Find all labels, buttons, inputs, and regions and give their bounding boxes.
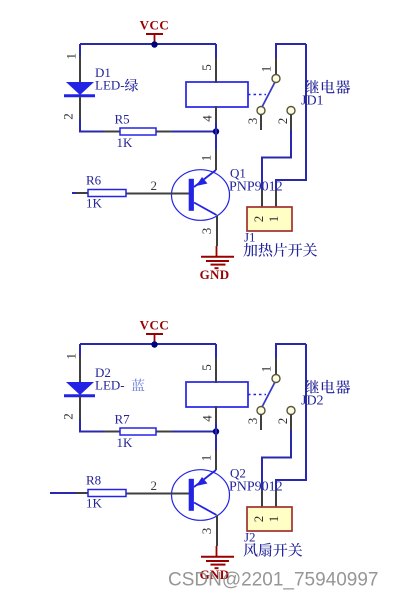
pin 3 stub xyxy=(260,415,262,431)
svg-text:5: 5 xyxy=(199,64,214,71)
svg-text:LED-: LED- xyxy=(95,378,125,393)
svg-text:4: 4 xyxy=(200,415,215,422)
svg-text:2: 2 xyxy=(151,178,158,193)
wire: top rail from LED branch to relay branch xyxy=(80,43,216,45)
LED D1 (绿) xyxy=(61,53,95,120)
svg-text:J1: J1 xyxy=(244,230,256,245)
resistor R5 1K xyxy=(104,112,172,151)
svg-text:2: 2 xyxy=(275,118,290,125)
svg-text:2: 2 xyxy=(251,216,266,223)
wire: node down to Q1 emitter xyxy=(215,123,217,150)
svg-text:GND: GND xyxy=(200,267,230,282)
svg-text:1: 1 xyxy=(259,66,274,73)
label D2 designator xyxy=(95,365,145,393)
relay coil JD1 body xyxy=(186,82,248,107)
transistor Q1 collector pin 3 xyxy=(216,216,218,247)
svg-text:1: 1 xyxy=(259,366,274,373)
connector J1 xyxy=(247,190,292,231)
transistor Q2 emitter pin 1 xyxy=(215,450,217,470)
wire: contact 2 down to J2 pin 2 xyxy=(262,430,291,490)
wire: right drop from rail to relay coil xyxy=(215,344,217,358)
resistor R8 1K xyxy=(76,473,126,511)
ground GND xyxy=(200,246,234,282)
power VCC (section 2) xyxy=(140,318,170,346)
relay JD2 contact 3 xyxy=(257,407,265,415)
relay JD2 contact 2 xyxy=(287,407,295,415)
svg-text:Q2: Q2 xyxy=(230,466,246,481)
wire: right rail down xyxy=(276,344,306,490)
svg-text:VCC: VCC xyxy=(140,18,170,33)
svg-text:1: 1 xyxy=(199,455,214,462)
relay JD1 switch arm xyxy=(262,82,275,107)
transistor Q1 emitter pin 1 xyxy=(215,150,217,170)
junction: node R5/coil/emitter dot xyxy=(213,128,219,134)
dashed link coil to contact arm xyxy=(248,94,266,96)
svg-text:3: 3 xyxy=(245,118,260,125)
wire: left stub to R8 xyxy=(50,492,76,494)
relay coil JD2 pin 4 xyxy=(215,406,217,423)
pin 2 lead xyxy=(290,115,292,131)
svg-text:3: 3 xyxy=(199,528,214,535)
label J1 designator xyxy=(243,230,317,257)
label J2 designator xyxy=(244,530,303,557)
svg-text:JD2: JD2 xyxy=(301,394,324,409)
svg-text:1: 1 xyxy=(199,155,214,162)
label relay 继电器 JD1 xyxy=(301,80,350,109)
svg-text:2: 2 xyxy=(61,113,76,120)
svg-text:2: 2 xyxy=(275,418,290,425)
svg-text:PNP9012: PNP9012 xyxy=(229,180,283,195)
svg-text:Q1: Q1 xyxy=(230,166,246,181)
relay coil JD1 pin 4 xyxy=(215,106,217,123)
relay JD1 contact pin 1 lead xyxy=(275,58,277,75)
transistor Q2 collector pin 3 xyxy=(216,516,218,547)
label Q1 designator xyxy=(229,166,283,195)
relay coil JD2 pin 5 xyxy=(215,358,217,383)
wire: contact 2 down to J1 pin 2 xyxy=(262,130,291,190)
connector J2 xyxy=(247,490,292,531)
wire: left stub to R6 xyxy=(72,192,76,194)
relay JD2 switch arm xyxy=(262,382,275,407)
svg-text:CSDN@2201_75940997: CSDN@2201_75940997 xyxy=(168,570,379,591)
svg-text:3: 3 xyxy=(245,418,260,425)
svg-text:1: 1 xyxy=(64,353,79,360)
dashed link coil to contact arm xyxy=(248,394,266,396)
svg-text:R7: R7 xyxy=(115,412,131,427)
relay JD1 contact 3 xyxy=(257,107,265,115)
svg-text:R6: R6 xyxy=(86,173,102,188)
relay JD2 contact pin 1 lead xyxy=(275,358,277,375)
svg-text:1K: 1K xyxy=(86,196,103,211)
svg-text:5: 5 xyxy=(199,364,214,371)
svg-text:VCC: VCC xyxy=(140,318,170,333)
junction: VCC node dot xyxy=(151,341,157,347)
svg-text:1: 1 xyxy=(266,216,281,223)
junction: node R7/coil/emitter dot xyxy=(213,428,219,434)
relay JD1 contact 2 xyxy=(287,107,295,115)
svg-text:2: 2 xyxy=(61,413,76,420)
transistor Q2 PNP9012 xyxy=(126,470,230,521)
wire: right drop from rail to relay coil xyxy=(215,44,217,58)
svg-text:2: 2 xyxy=(251,516,266,523)
pin 3 stub xyxy=(260,115,262,131)
wire: LED cathode down and right to R7 xyxy=(80,419,216,432)
label D1 designator xyxy=(95,65,138,93)
wire: LED cathode down and right to R5 xyxy=(80,119,216,132)
pin 2 lead xyxy=(290,415,292,431)
LED D2 ( 蓝) xyxy=(61,353,95,420)
svg-text:JD1: JD1 xyxy=(301,94,324,109)
svg-text:PNP9012: PNP9012 xyxy=(229,480,283,495)
wire: contact 1 up and over to right rail xyxy=(276,44,306,58)
resistor R7 1K xyxy=(104,412,172,451)
svg-text:1K: 1K xyxy=(86,496,103,511)
svg-text:J2: J2 xyxy=(244,530,256,545)
wire: top rail from LED branch to relay branch xyxy=(80,343,216,345)
svg-text:1K: 1K xyxy=(117,435,134,450)
svg-text:1K: 1K xyxy=(117,135,134,150)
wire: right rail down xyxy=(276,44,306,190)
relay JD2 contact 1 xyxy=(272,375,280,383)
svg-text:3: 3 xyxy=(199,228,214,235)
svg-text:1: 1 xyxy=(266,516,281,523)
label Q2 designator xyxy=(229,466,283,495)
junction: VCC node dot xyxy=(151,41,157,47)
power VCC (section 1) xyxy=(140,18,170,46)
label relay 继电器 JD2 xyxy=(301,380,350,409)
relay JD1 contact 1 xyxy=(272,75,280,83)
transistor Q1 PNP9012 xyxy=(126,170,230,221)
wire: left drop to LED D2 anode xyxy=(79,344,81,357)
svg-text:R8: R8 xyxy=(86,473,101,488)
svg-text:4: 4 xyxy=(200,115,215,122)
svg-text:1: 1 xyxy=(64,53,79,60)
svg-text:R5: R5 xyxy=(115,112,130,127)
wire: contact 1 up and over to right rail xyxy=(276,344,306,358)
relay coil JD2 body xyxy=(186,382,248,407)
ground GND xyxy=(200,546,234,582)
wire: node down to Q2 emitter xyxy=(215,423,217,450)
resistor R6 1K xyxy=(76,173,126,211)
relay coil JD1 pin 5 xyxy=(215,58,217,83)
svg-text:2: 2 xyxy=(151,478,158,493)
svg-text:LED-: LED- xyxy=(95,78,125,93)
wire: left drop to LED D1 anode xyxy=(79,44,81,57)
